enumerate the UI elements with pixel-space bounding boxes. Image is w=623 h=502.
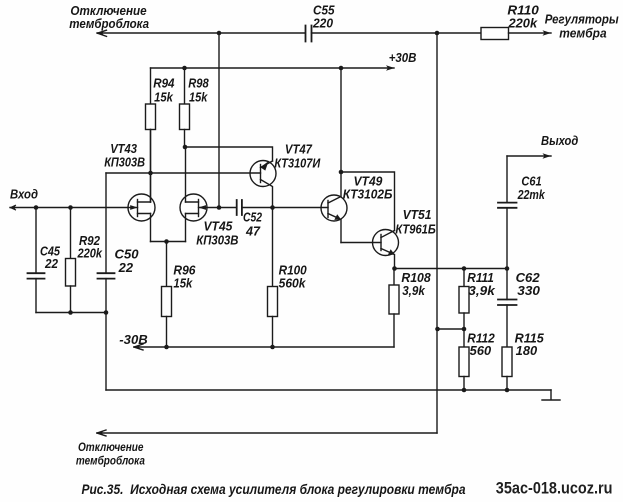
wire vertical x437 down to bottom	[436, 33, 438, 433]
svg-text:R98: R98	[188, 77, 209, 91]
svg-text:C55: C55	[313, 3, 335, 17]
wire sources join	[151, 241, 186, 243]
label C62 330	[516, 271, 540, 298]
transistor VT43 (JFET)	[128, 194, 155, 221]
svg-text:темброблока: темброблока	[69, 16, 149, 31]
node VT49 collector rail tap	[339, 66, 344, 71]
resistor R94	[150, 68, 152, 104]
arrow disable left	[98, 30, 107, 36]
svg-text:КП303В: КП303В	[104, 156, 145, 170]
capacitor C55	[306, 26, 312, 42]
wire input line	[10, 207, 128, 209]
svg-text:VT47: VT47	[285, 143, 313, 157]
label C45 22	[40, 245, 61, 272]
resistor R96	[166, 242, 168, 287]
capacitor C45	[35, 208, 37, 274]
wire VT49 emitter to VT51 base	[341, 242, 381, 244]
wire collector link VT49 VT51	[341, 172, 395, 231]
resistor R92	[70, 208, 72, 259]
arrow -30V	[134, 344, 143, 350]
node R92 bottom	[68, 310, 73, 315]
wire +30V rail	[151, 67, 395, 69]
label VT45 КП303В	[196, 220, 238, 248]
label R111 3,9k	[467, 271, 496, 298]
resistor R110	[481, 28, 509, 40]
node C50 line junction	[104, 310, 109, 315]
node R112 bottom	[462, 388, 467, 393]
resistor R112	[463, 329, 465, 347]
label VT47 КТ3107И	[274, 143, 321, 171]
label C55 220	[312, 3, 335, 30]
wire R98 to VT47 emitter	[185, 147, 273, 161]
label Отключение темброблока (top)	[69, 3, 149, 31]
ground	[542, 390, 560, 400]
node top tap x219	[217, 31, 222, 36]
wire R110 to tone controls arrow	[509, 32, 552, 34]
node VT45 gate	[217, 205, 222, 210]
label R110 220k	[507, 4, 538, 31]
svg-text:Вход: Вход	[10, 187, 38, 202]
arrow to tone controls	[543, 30, 552, 35]
svg-text:КТ3107И: КТ3107И	[274, 157, 321, 171]
node C45 top	[34, 205, 39, 210]
node top tap x437	[435, 31, 440, 36]
label R108 3,9k	[401, 271, 430, 298]
svg-text:КТ961Б: КТ961Б	[395, 223, 436, 237]
label VT51 КТ961Б	[395, 208, 436, 237]
arrow bottom disable left	[97, 430, 106, 436]
svg-text:R100: R100	[279, 264, 307, 278]
svg-text:3,9k: 3,9k	[468, 284, 496, 298]
label C61 22mk	[517, 175, 546, 203]
wire C52 line	[219, 207, 237, 209]
node R96 top	[164, 239, 169, 244]
node R96 bottom	[164, 345, 169, 350]
node VT45 drain R98 join	[183, 145, 188, 150]
svg-text:Отключение: Отключение	[78, 440, 144, 454]
transistor VT49 (NPN)	[321, 195, 347, 221]
node R115 bottom	[505, 388, 510, 393]
svg-text:C52: C52	[243, 211, 262, 225]
wire output top	[507, 155, 551, 157]
label R98 15k	[188, 77, 209, 105]
svg-text:C61: C61	[521, 175, 541, 189]
resistor R98	[184, 68, 186, 104]
svg-text:560: 560	[470, 344, 491, 358]
svg-text:220k: 220k	[507, 16, 538, 30]
capacitor C62	[506, 269, 508, 300]
resistor R111	[463, 269, 465, 287]
svg-text:22: 22	[44, 257, 58, 271]
svg-text:22: 22	[118, 261, 133, 275]
svg-text:C50: C50	[115, 248, 139, 262]
wire bottom join C45 R92 C50	[36, 312, 106, 314]
label R115 180	[515, 332, 545, 358]
capacitor C61	[506, 156, 508, 203]
node C62 top	[505, 266, 510, 271]
svg-text:Рис.35. Исходная схема усилит: Рис.35. Исходная схема усилителя блока р…	[82, 481, 466, 497]
svg-text:330: 330	[517, 284, 540, 298]
arrow +30V	[386, 65, 395, 70]
svg-text:КТ3102Б: КТ3102Б	[343, 188, 393, 202]
svg-text:-30В: -30В	[119, 333, 147, 347]
svg-text:темброблока: темброблока	[76, 454, 145, 468]
svg-text:220: 220	[312, 16, 333, 30]
svg-text:R94: R94	[153, 77, 174, 91]
wire ground line	[106, 389, 551, 391]
label Регуляторы тембра	[545, 12, 619, 41]
node VT49 collector tap	[339, 170, 344, 175]
label R92 220k	[77, 234, 103, 260]
node R111 top	[462, 266, 467, 271]
label R112 560	[467, 332, 495, 358]
wire VT47 base line	[106, 172, 261, 174]
node VT51 emitter R108	[392, 266, 397, 271]
svg-text:15k: 15k	[189, 90, 208, 104]
wire vertical x219 to VT45 gate	[218, 33, 220, 208]
wire R111 bottom to x437	[438, 328, 465, 330]
resistor R115	[502, 347, 512, 377]
wire output emitter rail	[395, 268, 508, 270]
svg-text:тембра: тембра	[559, 26, 606, 41]
svg-text:R96: R96	[173, 264, 196, 278]
svg-text:VT49: VT49	[354, 174, 383, 188]
svg-text:КП303В: КП303В	[196, 234, 238, 248]
wire bottom disable line	[97, 432, 437, 434]
wire top disable line	[97, 32, 305, 34]
node R100 bottom	[270, 345, 275, 350]
label Отключение темброблока (bottom)	[76, 440, 145, 468]
wire -30V rail	[134, 346, 394, 348]
label R100 560k	[279, 264, 307, 291]
svg-text:180: 180	[516, 344, 538, 358]
node R112 top	[462, 327, 467, 332]
arrow input	[11, 205, 17, 209]
node VT47 collector R100 tap	[270, 205, 275, 210]
label VT49 КТ3102Б	[343, 174, 393, 201]
svg-text:VT51: VT51	[403, 208, 432, 222]
transistor VT47 (PNP)	[250, 161, 276, 187]
svg-text:560k: 560k	[279, 277, 307, 291]
svg-text:35ac-018.ucoz.ru: 35ac-018.ucoz.ru	[496, 479, 613, 498]
node x437 R111 tap	[435, 327, 440, 332]
svg-text:+30В: +30В	[389, 51, 417, 65]
svg-text:VT45: VT45	[204, 220, 234, 234]
label R94 15k	[153, 77, 174, 105]
svg-text:15k: 15k	[173, 277, 193, 291]
capacitor C50	[105, 173, 107, 273]
svg-text:22mk: 22mk	[517, 188, 546, 202]
svg-text:VT43: VT43	[110, 142, 137, 156]
svg-text:47: 47	[245, 225, 261, 239]
svg-text:15k: 15k	[154, 90, 174, 104]
label R96 15k	[173, 264, 196, 291]
svg-text:Регуляторы: Регуляторы	[545, 12, 619, 27]
resistor R108	[393, 269, 395, 286]
node R92 top	[68, 205, 73, 210]
label VT43 КП303В	[104, 142, 145, 170]
transistor VT51 (NPN)	[373, 230, 399, 256]
node VT43 drain tap to VT47 base	[148, 171, 153, 176]
label C50 22	[115, 248, 139, 275]
wire C55 to R110	[312, 32, 482, 34]
capacitor C52	[237, 200, 242, 215]
resistor R100	[272, 208, 274, 287]
node R98 top	[182, 66, 187, 71]
label C52 47	[243, 211, 262, 239]
svg-text:Выход: Выход	[541, 133, 578, 148]
arrow output	[543, 153, 552, 158]
svg-text:3,9k: 3,9k	[402, 284, 426, 298]
transistor VT45 (JFET)	[180, 194, 207, 221]
svg-text:220k: 220k	[77, 246, 103, 260]
